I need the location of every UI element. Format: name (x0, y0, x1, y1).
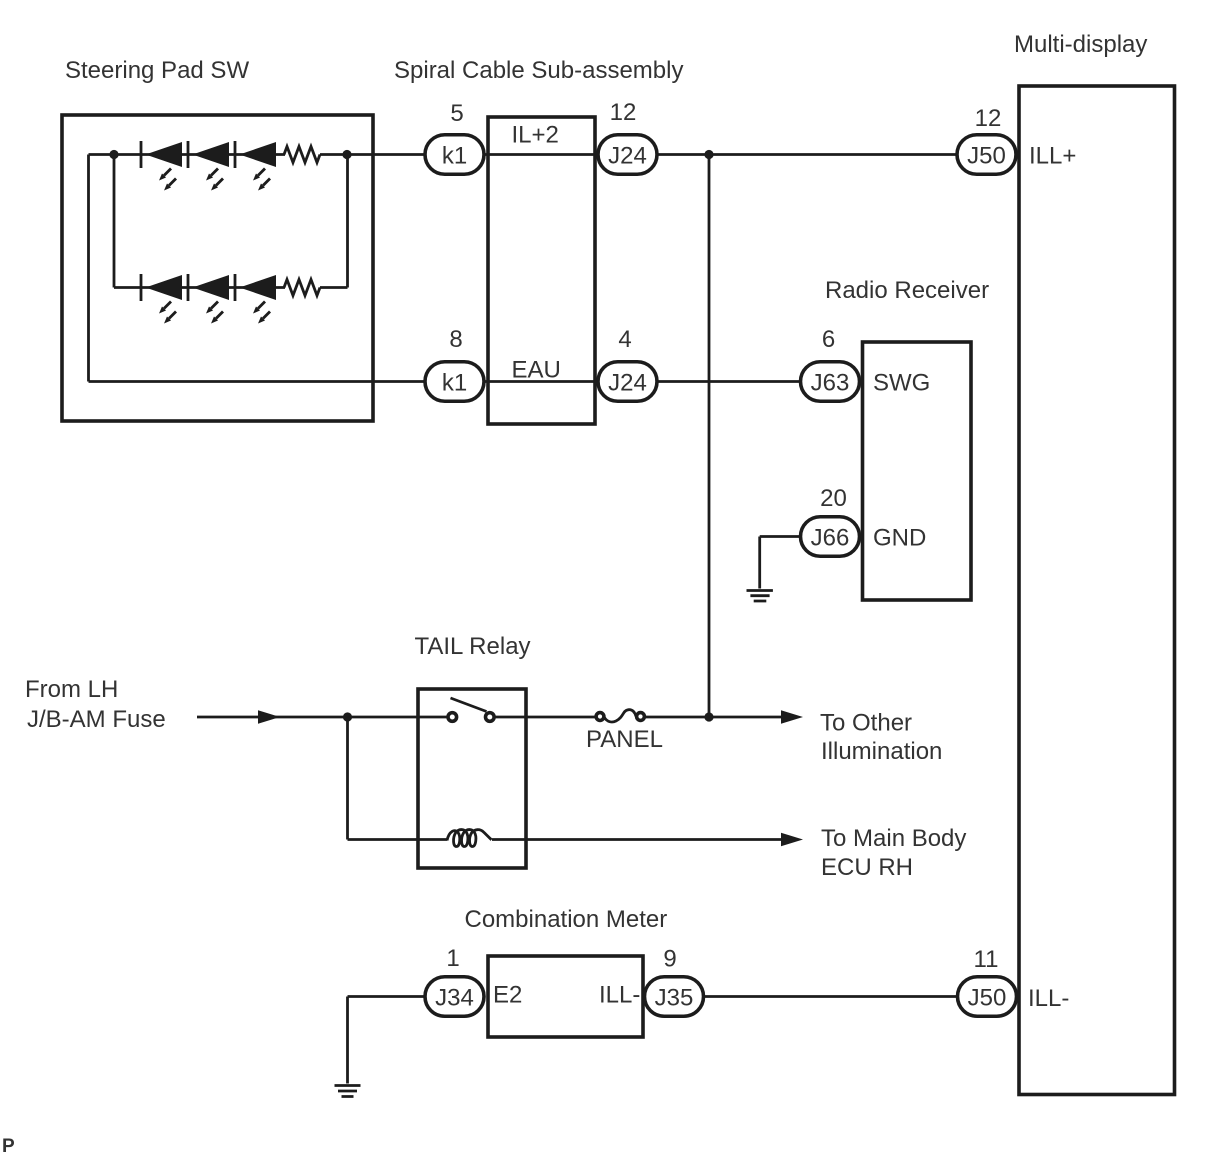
svg-text:P: P (2, 1136, 15, 1156)
svg-text:Steering Pad SW: Steering Pad SW (65, 57, 249, 84)
svg-text:ILL-: ILL- (599, 982, 640, 1009)
svg-text:8: 8 (449, 326, 462, 353)
svg-text:To Main Body: To Main Body (821, 825, 966, 852)
svg-text:TAIL Relay: TAIL Relay (415, 633, 531, 660)
svg-text:11: 11 (974, 946, 999, 973)
svg-text:1: 1 (446, 945, 459, 972)
svg-text:k1: k1 (442, 142, 467, 169)
svg-text:ILL-: ILL- (1028, 985, 1069, 1012)
svg-text:To Other: To Other (820, 710, 912, 737)
svg-text:12: 12 (975, 105, 1002, 132)
svg-text:5: 5 (450, 100, 463, 127)
svg-text:SWG: SWG (873, 370, 930, 397)
svg-text:Spiral Cable Sub-assembly: Spiral Cable Sub-assembly (394, 57, 683, 84)
svg-text:EAU: EAU (512, 357, 561, 384)
svg-text:J50: J50 (968, 984, 1007, 1011)
svg-text:9: 9 (663, 946, 676, 973)
svg-text:J24: J24 (608, 142, 647, 169)
svg-text:From LH: From LH (25, 676, 118, 703)
svg-text:ECU RH: ECU RH (821, 854, 913, 881)
svg-text:Multi-display: Multi-display (1014, 31, 1147, 58)
svg-text:k1: k1 (442, 369, 467, 396)
svg-text:J35: J35 (655, 984, 694, 1011)
svg-text:PANEL: PANEL (586, 726, 663, 753)
svg-text:Radio Receiver: Radio Receiver (825, 277, 989, 304)
svg-text:J24: J24 (608, 369, 647, 396)
svg-text:J34: J34 (435, 984, 474, 1011)
svg-text:E2: E2 (493, 982, 522, 1009)
svg-text:J50: J50 (967, 142, 1006, 169)
svg-text:4: 4 (618, 326, 631, 353)
svg-text:J63: J63 (811, 369, 850, 396)
svg-text:6: 6 (822, 326, 835, 353)
svg-text:J/B-AM Fuse: J/B-AM Fuse (27, 706, 166, 733)
svg-text:J66: J66 (811, 524, 850, 551)
svg-text:IL+2: IL+2 (512, 122, 559, 149)
svg-text:GND: GND (873, 525, 926, 552)
svg-text:ILL+: ILL+ (1029, 143, 1076, 170)
svg-text:12: 12 (610, 99, 637, 126)
svg-text:Combination Meter: Combination Meter (465, 906, 668, 933)
svg-text:20: 20 (820, 485, 847, 512)
svg-text:Illumination: Illumination (821, 738, 942, 765)
